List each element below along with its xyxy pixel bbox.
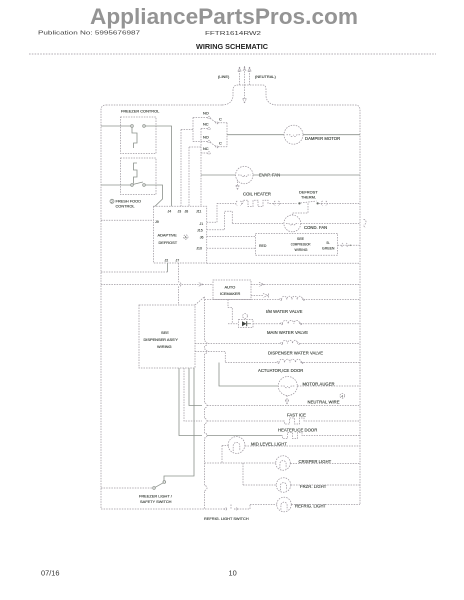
svg-text:C: C (219, 117, 222, 122)
svg-text:J9: J9 (155, 220, 159, 224)
wire therm to rail (319, 202, 360, 204)
svg-text:FAST ICE: FAST ICE (287, 413, 306, 418)
svg-text:GREEN: GREEN (322, 247, 335, 251)
wire common to damper (227, 134, 284, 136)
svg-text:(NEUTRAL): (NEUTRAL) (255, 74, 276, 79)
node neutral prong (249, 68, 251, 85)
thermostat freezer control box (121, 117, 157, 154)
svg-text:COND. FAN: COND. FAN (304, 225, 327, 230)
svg-text:J3: J3 (178, 210, 182, 214)
wire rail to icemaker (101, 283, 213, 285)
svg-text:THERM.: THERM. (301, 195, 316, 200)
svg-text:10: 10 (229, 569, 237, 578)
wire defrost bottom to right rail (207, 262, 360, 264)
wire dispenser diag (195, 297, 205, 305)
header block (29, 4, 436, 54)
solenoid im water valve (205, 299, 281, 301)
wire freezer thermostat to J4 (145, 126, 171, 206)
svg-text:DEFROST: DEFROST (159, 240, 178, 245)
svg-text:(LINE): (LINE) (218, 74, 230, 79)
motor evap fan (236, 166, 253, 183)
svg-text:Publication No: 5995676987: Publication No: 5995676987 (38, 31, 140, 37)
svg-text:WIRING: WIRING (295, 248, 308, 252)
svg-text:ADAPTIVE: ADAPTIVE (158, 233, 178, 238)
node line prong (239, 68, 241, 85)
svg-text:J6: J6 (200, 235, 204, 239)
wire power cord hump (222, 85, 277, 105)
wire therm to cond fan (292, 203, 308, 215)
svg-text:J10: J10 (196, 247, 202, 251)
diode (239, 320, 254, 328)
motor auger (219, 363, 278, 387)
svg-text:J15: J15 (197, 229, 203, 233)
svg-text:B.: B. (327, 241, 330, 245)
icemaker auto box (213, 280, 251, 299)
svg-text:MAIN WATER VALVE: MAIN WATER VALVE (267, 330, 308, 335)
svg-text:DISPENSER WATER VALVE: DISPENSER WATER VALVE (268, 351, 323, 356)
lamp frzr light (243, 484, 276, 486)
wire J9 (101, 219, 154, 221)
wire icemaker to diode (228, 299, 239, 323)
wire damper to rail (303, 134, 360, 136)
ground auger (285, 396, 289, 405)
svg-text:SEE: SEE (297, 237, 305, 241)
heater ice door (179, 368, 202, 436)
dispenser assy box (139, 305, 195, 368)
switch freezer light safety (164, 368, 194, 481)
svg-text:NEUTRAL WIRE: NEUTRAL WIRE (308, 399, 340, 404)
svg-text:2: 2 (111, 200, 113, 204)
wire mid to crisper (205, 446, 276, 464)
wire J6 out (207, 236, 256, 238)
svg-text:FREEZER CONTROL: FREEZER CONTROL (121, 109, 160, 114)
wire icemaker aux out (251, 295, 263, 297)
wire neutral (189, 368, 202, 406)
wire fresh food thermostat routing (145, 185, 162, 206)
thermostat fresh food capillary (134, 163, 138, 184)
svg-text:J7: J7 (176, 259, 180, 263)
ground evap fan (236, 182, 239, 190)
wire top rail left (106, 104, 222, 106)
thermostat fresh food contacts (131, 184, 134, 187)
wire right rail (359, 180, 361, 505)
svg-text:AUTO: AUTO (225, 285, 236, 290)
svg-text:J11: J11 (196, 210, 201, 214)
svg-text:AppliancePartsPros.com: AppliancePartsPros.com (90, 4, 358, 29)
svg-text:REFRIG. LIGHT SWITCH: REFRIG. LIGHT SWITCH (204, 516, 249, 521)
wire green to rail (338, 244, 360, 246)
thermostat freezer contacts (131, 125, 134, 128)
svg-text:DISPENSER ASS'Y: DISPENSER ASS'Y (144, 337, 179, 342)
heater fast ice (184, 368, 202, 421)
label fresh food control (110, 199, 114, 203)
svg-text:FFTR1614RW2: FFTR1614RW2 (205, 31, 261, 37)
svg-text:4: 4 (341, 394, 343, 398)
motor cond fan (284, 215, 301, 232)
svg-text:NC: NC (203, 122, 209, 127)
svg-text:J8: J8 (185, 210, 189, 214)
svg-text:07/16: 07/16 (41, 569, 60, 578)
svg-text:ICEMAKER: ICEMAKER (220, 291, 241, 296)
svg-text:FREEZER LIGHT /: FREEZER LIGHT / (139, 494, 173, 499)
wire evap fan line (201, 174, 236, 176)
wire J3 feed (180, 130, 182, 207)
wire J15 out (207, 211, 233, 230)
svg-text:C: C (219, 141, 222, 146)
lamp mid level light (222, 445, 229, 447)
svg-text:A: A (185, 236, 188, 240)
svg-text:NO: NO (203, 135, 209, 140)
svg-text:WIRING SCHEMATIC: WIRING SCHEMATIC (196, 42, 268, 51)
lamp refrig light (250, 504, 277, 506)
wire hop rail (dispenser to bottom) (205, 297, 208, 509)
wire top rail right (277, 105, 360, 180)
svg-text:RED: RED (259, 244, 267, 248)
wire J10 out (207, 247, 256, 249)
lamp crisper light (276, 456, 291, 471)
thermostat freezer capillary (132, 127, 137, 148)
svg-text:ACTUATOR,ICE DOOR: ACTUATOR,ICE DOOR (258, 368, 303, 373)
wire NO feed (181, 118, 208, 142)
wire cond fan line (232, 222, 284, 224)
svg-text:MID LEVEL LIGHT: MID LEVEL LIGHT (251, 441, 287, 446)
solenoid main water valve (253, 323, 281, 325)
svg-text:NO: NO (203, 111, 209, 116)
wire J7 down (hop at icemaker line) (179, 263, 182, 305)
node ground prong (244, 66, 246, 99)
control adaptive defrost board (154, 206, 207, 263)
wire rail to fresh food thermostat (101, 184, 131, 186)
wire common bus (218, 123, 227, 147)
svg-text:DAMPER MOTOR: DAMPER MOTOR (305, 136, 340, 141)
wire icemaker to rail (251, 283, 360, 285)
wire heater to therm (270, 202, 297, 204)
connector bracket at rail (364, 220, 367, 229)
wire NC to J8 (189, 147, 201, 206)
svg-text:J2: J2 (165, 259, 169, 263)
relay arm 1 (210, 118, 216, 122)
relay arm 2 (210, 142, 216, 146)
wire evap to rail (253, 174, 360, 176)
wire rail to freezer thermostat (101, 125, 131, 127)
svg-text:CONTROL: CONTROL (116, 204, 136, 209)
svg-text:COMPRESSOR: COMPRESSOR (291, 243, 311, 247)
solenoid dispenser water valve (195, 343, 281, 345)
svg-text:J1: J1 (200, 222, 204, 226)
svg-text:SAFETY SWITCH: SAFETY SWITCH (140, 499, 172, 504)
wire crisper to frzr (242, 463, 244, 485)
svg-text:J4: J4 (168, 210, 172, 214)
motor damper (284, 125, 303, 144)
wire J1 out (207, 203, 217, 222)
thermostat fresh food box (121, 158, 157, 195)
svg-text:SEE: SEE (161, 330, 169, 335)
svg-text:COIL HEATER: COIL HEATER (243, 192, 271, 197)
wire left rail (101, 105, 106, 508)
compressor box (255, 233, 337, 255)
wire J2 to rail (167, 263, 169, 272)
svg-text:HEATER,ICE DOOR: HEATER,ICE DOOR (278, 428, 317, 433)
switch refrig light (101, 508, 224, 510)
svg-text:I/M WATER VALVE: I/M WATER VALVE (266, 309, 303, 314)
svg-text:WIRING: WIRING (157, 344, 171, 349)
solenoid actuator ice door (195, 352, 225, 363)
wire NC bus (201, 129, 208, 207)
svg-text:NC: NC (203, 146, 209, 151)
